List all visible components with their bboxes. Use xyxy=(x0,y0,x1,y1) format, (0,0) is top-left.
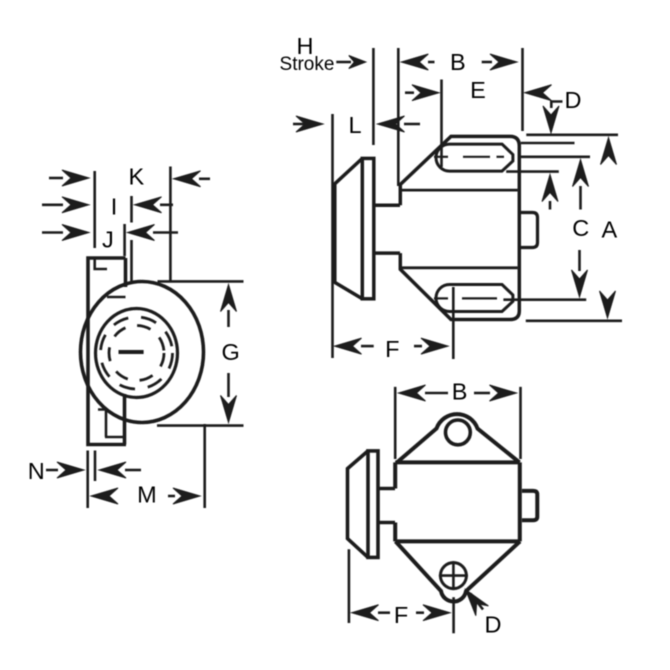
svg-text:B: B xyxy=(450,49,466,75)
svg-text:M: M xyxy=(137,482,157,508)
svg-text:N: N xyxy=(28,458,45,484)
svg-text:K: K xyxy=(128,163,144,189)
svg-text:F: F xyxy=(385,336,399,362)
svg-text:F: F xyxy=(394,602,408,628)
svg-text:B: B xyxy=(452,379,468,405)
svg-text:E: E xyxy=(470,77,486,103)
svg-text:L: L xyxy=(348,112,361,138)
svg-text:Stroke: Stroke xyxy=(280,54,335,75)
svg-text:C: C xyxy=(572,215,589,241)
svg-text:D: D xyxy=(485,611,502,637)
svg-text:D: D xyxy=(565,87,582,113)
svg-text:J: J xyxy=(102,227,114,253)
svg-text:G: G xyxy=(221,339,239,365)
svg-text:A: A xyxy=(602,216,618,242)
svg-text:I: I xyxy=(111,194,118,220)
